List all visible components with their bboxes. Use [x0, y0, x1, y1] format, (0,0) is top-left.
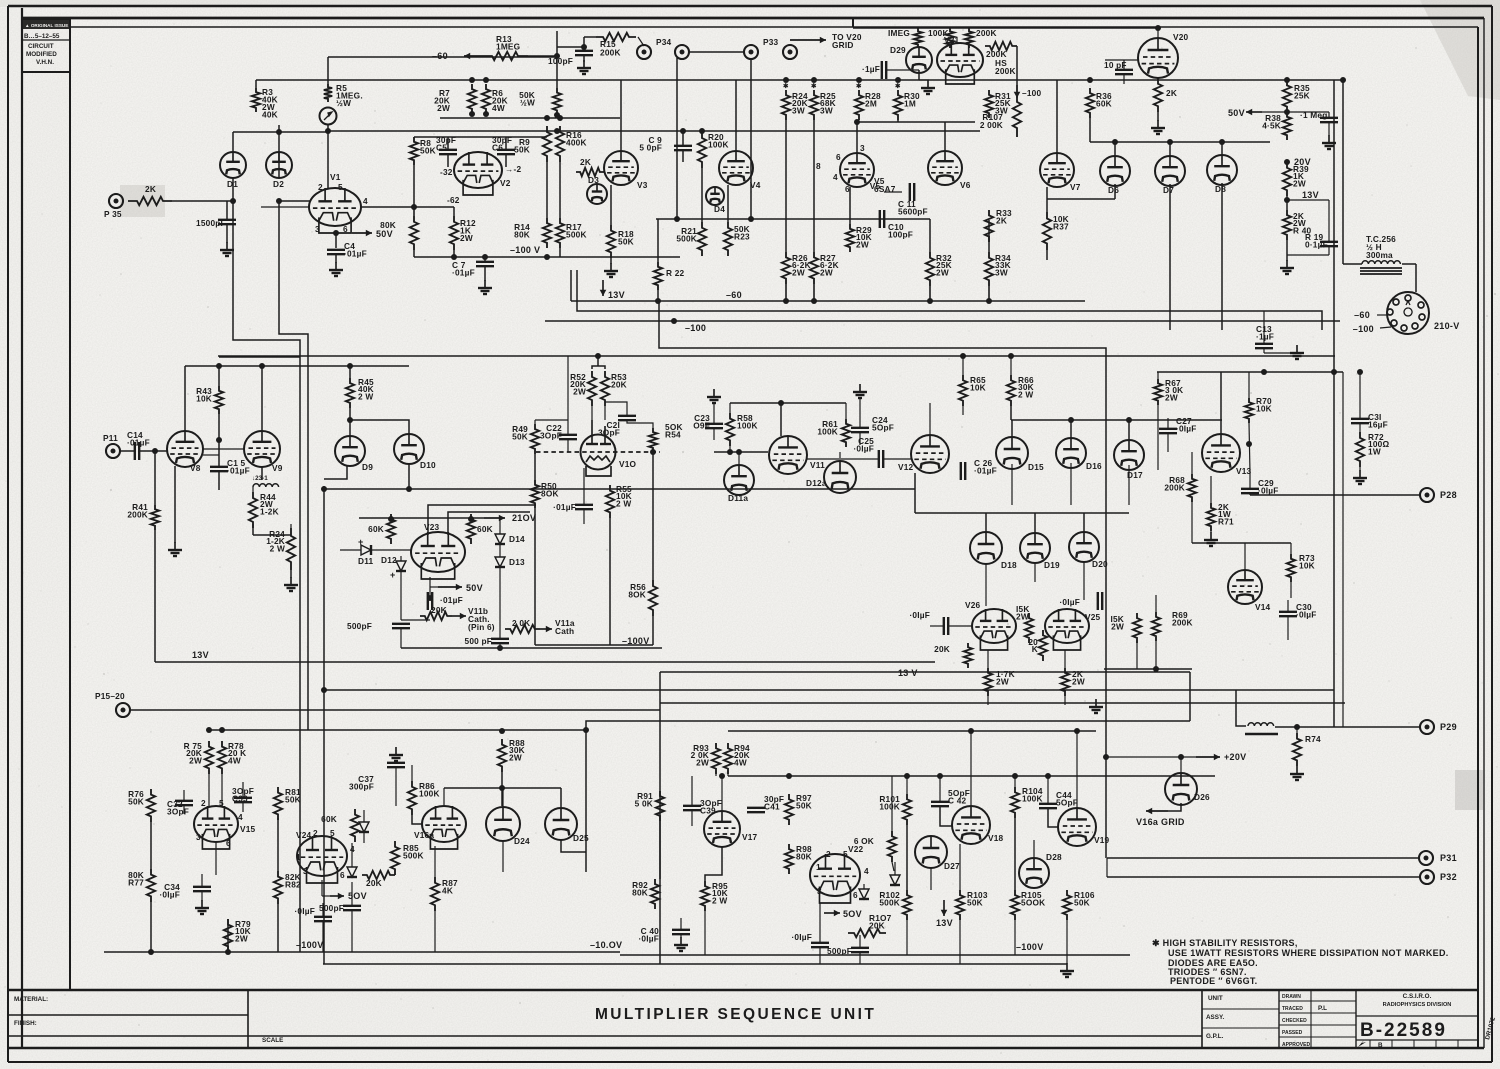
valve socket 210V — [1387, 292, 1429, 334]
diode D12 — [396, 561, 406, 571]
capacitor C7 — [476, 262, 494, 266]
wire R79 bottom — [227, 919, 229, 952]
svg-text:V1O: V1O — [619, 459, 637, 469]
wire D2 top to node — [278, 125, 280, 178]
wire — [894, 862, 896, 875]
resistor R87 — [431, 877, 439, 911]
wire C32 top — [183, 790, 185, 801]
diode tube D20 — [1069, 532, 1099, 562]
svg-text:R74: R74 — [1305, 734, 1321, 744]
wire -100 bus — [545, 320, 1340, 322]
wire R36 bottom — [1089, 118, 1091, 142]
svg-text:60K: 60K — [477, 524, 493, 534]
ground D29 — [921, 80, 935, 94]
connector P11 — [106, 444, 120, 458]
resistor 60K (V24) — [351, 809, 359, 842]
wire D8 down — [1221, 183, 1223, 330]
inductor core bar — [1245, 733, 1278, 735]
wire R49 top lead — [534, 420, 536, 424]
wire V4 cath down — [727, 185, 729, 222]
svg-text:V11aCath: V11aCath — [555, 618, 575, 636]
wire D12a top — [839, 452, 841, 458]
wire P28 line — [1250, 494, 1421, 496]
wire bus y964 — [323, 963, 1067, 965]
wire R15 left — [584, 36, 596, 38]
wire V14 plate up — [1244, 543, 1246, 570]
wire vertical x308 — [307, 366, 309, 730]
wire — [429, 587, 431, 598]
wire V8 plate up — [184, 366, 186, 431]
wire — [819, 947, 821, 964]
resistor 60K (V23 left) — [387, 514, 395, 544]
wire V8 k — [203, 454, 219, 456]
wire top grid bus — [853, 27, 1158, 29]
resistor 200K horizontal (V21) — [985, 42, 1017, 50]
svg-text:80K: 80K — [380, 220, 396, 230]
ground C24 — [853, 384, 867, 398]
svg-text:R6510K: R6510K — [970, 375, 986, 393]
svg-text:2K: 2K — [1166, 88, 1177, 98]
svg-text:8: 8 — [816, 161, 821, 171]
wire D14 top — [499, 519, 501, 534]
resistor R50 — [531, 480, 539, 508]
wire cap bot — [1328, 122, 1330, 136]
diode tube D3 — [587, 184, 607, 204]
capacitor C37 — [387, 763, 405, 767]
wire R102 bottom — [906, 920, 908, 955]
svg-text:V26: V26 — [965, 600, 981, 610]
wire C32 bottom — [183, 805, 185, 814]
wire P15-20 line — [129, 709, 660, 711]
svg-text:DRAWN: DRAWN — [1282, 994, 1301, 1000]
svg-text:R4950K: R4950K — [512, 424, 528, 442]
wire — [499, 643, 501, 648]
wire D20 top — [1083, 513, 1085, 532]
svg-text:V4: V4 — [750, 180, 761, 190]
resistor R92 — [651, 879, 659, 909]
svg-text:D28: D28 — [1046, 852, 1062, 862]
title block lower row line — [8, 1035, 1202, 1037]
wire diode bot — [363, 832, 365, 843]
wire R86 to V16a grid — [412, 815, 422, 824]
svg-text:▲ ORIGINAL ISSUE: ▲ ORIGINAL ISSUE — [25, 23, 68, 28]
svg-text:–100: –100 — [685, 323, 706, 333]
wire V23 plate2 — [448, 512, 530, 535]
wire bus y672 — [660, 671, 1190, 673]
svg-text:G.P.L.: G.P.L. — [1206, 1033, 1224, 1040]
wire R13 to node — [528, 55, 557, 57]
wire cap top — [1328, 112, 1330, 118]
capacitor C31 — [1351, 419, 1369, 423]
svg-text:R9510K2 W: R9510K2 W — [712, 881, 728, 905]
dual triode V15 — [194, 806, 238, 849]
capacitor 0.1uF (D29) — [882, 61, 886, 79]
resistor R81 — [274, 787, 282, 820]
svg-text:B-22589: B-22589 — [1360, 1020, 1447, 1041]
svg-text:200K: 200K — [976, 28, 997, 38]
svg-text:V17: V17 — [742, 832, 758, 842]
resistor 60K (V22) — [888, 831, 896, 862]
wire — [583, 468, 585, 505]
svg-text:✱: ✱ — [783, 83, 788, 90]
wire R49/C22 tie — [535, 419, 568, 421]
resistor R24 — [782, 90, 790, 120]
svg-text:R5220K2W: R5220K2W — [570, 372, 586, 396]
wire D18 bottom — [985, 563, 987, 606]
wire vertical x1343 lower — [1342, 372, 1344, 727]
wire C5 bot — [447, 154, 449, 167]
svg-text:C.S.I.R.O.: C.S.I.R.O. — [1403, 993, 1432, 1000]
wire R44 join — [252, 487, 254, 492]
wire R34 bot — [988, 286, 990, 301]
svg-text:R384·5K: R384·5K — [1262, 113, 1281, 131]
ground V8 — [168, 542, 182, 556]
svg-text:↓23-1: ↓23-1 — [252, 475, 268, 482]
resistor R107 20K (V22) — [848, 929, 886, 937]
svg-text:V16a: V16a — [414, 830, 434, 840]
wire R33-R34 — [988, 220, 990, 252]
resistor R67 — [1154, 379, 1162, 405]
wire P31/P32 join — [1106, 858, 1108, 877]
wire 2K bottom — [1064, 696, 1066, 705]
wire C29 top — [1249, 473, 1251, 489]
wire R65 top — [962, 356, 964, 375]
title block divider after finish — [247, 990, 249, 1048]
svg-text:–60: –60 — [432, 51, 448, 61]
wire D15/D16 top bus — [1011, 419, 1222, 421]
svg-text:4: 4 — [238, 812, 243, 822]
wire R53 bot — [604, 406, 606, 420]
diode D11 — [361, 545, 371, 555]
wire C40 top — [680, 918, 682, 930]
wire R22 top — [657, 219, 659, 262]
svg-text:2: 2 — [201, 798, 206, 808]
wire R95 down — [704, 911, 706, 955]
svg-text:D10: D10 — [420, 460, 436, 470]
wire C24 top — [859, 398, 861, 428]
ground C34 — [195, 900, 209, 914]
capacitor C25 — [879, 450, 883, 468]
wire R27 join — [813, 284, 815, 301]
wire R52 bot — [591, 406, 593, 420]
resistor R14 — [543, 218, 551, 248]
resistor R30 — [894, 90, 902, 120]
resistor R18 — [607, 225, 615, 258]
wire R66 bottom — [1010, 406, 1012, 420]
wire C4 top — [335, 233, 337, 248]
resistor R17 — [556, 218, 564, 248]
wire D11a top — [738, 452, 740, 466]
wire — [322, 921, 324, 952]
wire V3 cathode down — [610, 185, 612, 225]
resistor 2K 2W — [1061, 668, 1069, 696]
title block signature column — [1279, 990, 1356, 1048]
triode V6 — [928, 151, 962, 185]
svg-text:P31: P31 — [1440, 853, 1457, 863]
svg-text:R 22: R 22 — [666, 268, 685, 278]
svg-text:✱: ✱ — [895, 83, 900, 90]
wire V17 plate up — [721, 776, 723, 811]
wire R24-R26 — [785, 120, 787, 252]
svg-text:D8: D8 — [1215, 184, 1226, 194]
resistor R95 — [701, 881, 709, 911]
resistor R77 — [147, 869, 155, 902]
wire to 500pF — [401, 619, 430, 621]
wire -60 to socket — [1377, 314, 1388, 316]
wire C4 bottom — [335, 254, 337, 263]
wire R104-R105 — [1014, 818, 1016, 890]
svg-text:D13: D13 — [509, 557, 525, 567]
wire — [430, 586, 438, 588]
svg-text:100pF: 100pF — [548, 56, 573, 66]
wire R82 down — [277, 904, 279, 952]
frame border right — [1477, 27, 1479, 1048]
wire 100pF top — [583, 47, 585, 51]
ground C4 — [329, 262, 343, 276]
svg-text:V6: V6 — [960, 180, 971, 190]
wire D1 bottom lead — [232, 178, 234, 201]
svg-text:1: 1 — [296, 852, 301, 862]
diode tube D11a — [724, 465, 754, 495]
resistor 20K to V11b — [420, 612, 452, 620]
wire V25 bottom — [1064, 650, 1066, 668]
arrow -100 (R107) — [1014, 85, 1021, 98]
wire — [859, 952, 861, 964]
wire 13V node — [1287, 199, 1329, 201]
wire R73 top — [1290, 543, 1292, 554]
resistor 2K (V20) — [1154, 78, 1162, 112]
wire R13 node to R5 — [328, 56, 557, 58]
diode tube D24 — [486, 807, 520, 841]
ground 2K V20 — [1151, 120, 1165, 134]
svg-text:R3525K: R3525K — [1294, 83, 1310, 101]
svg-text:10KR37: 10KR37 — [1053, 214, 1069, 232]
resistor 1MEG (top) — [914, 28, 922, 48]
capacitor C29 — [1241, 489, 1259, 493]
wire V3 plate up — [620, 80, 622, 151]
svg-text:P 35: P 35 — [104, 209, 122, 219]
title block top line — [8, 989, 1478, 992]
svg-text:R9750K: R9750K — [796, 793, 812, 811]
connector P29 — [1420, 720, 1434, 734]
svg-text:UNIT: UNIT — [1208, 995, 1223, 1002]
resistor R3 — [252, 88, 260, 112]
svg-text:R104100K: R104100K — [1022, 786, 1043, 804]
resistor R88 — [498, 739, 506, 772]
svg-text:V8: V8 — [190, 463, 201, 473]
diode tube D15 — [996, 437, 1028, 469]
wire V12 plate up — [929, 403, 931, 435]
resistor R13 — [482, 52, 528, 60]
resistor R5 — [324, 84, 332, 102]
svg-text:V15: V15 — [240, 824, 256, 834]
svg-text:–100: –100 — [1022, 88, 1041, 98]
svg-text:50K½W: 50K½W — [519, 90, 535, 108]
capacitor 0.1Meg bypass — [1320, 118, 1338, 122]
arrow V11b cath — [452, 613, 466, 620]
svg-text:D24: D24 — [514, 836, 530, 846]
resistor 60K (V23 right) — [467, 514, 475, 544]
svg-text:2K: 2K — [145, 184, 156, 194]
wire R43 top — [218, 366, 220, 386]
wire R9-R14 — [546, 162, 548, 218]
resistor R37 — [1043, 212, 1051, 250]
wire V23 cath — [429, 577, 431, 587]
svg-text:13V: 13V — [192, 650, 209, 660]
svg-text:R6630K2 W: R6630K2 W — [1018, 375, 1034, 399]
svg-text:R101100K: R101100K — [879, 794, 900, 812]
resistor 2K (V3 grid) — [576, 168, 604, 176]
svg-text:·0IµF: ·0IµF — [294, 906, 315, 916]
wire 100pF bottom — [583, 55, 585, 62]
svg-text:R1480K: R1480K — [514, 222, 530, 240]
svg-text:D11: D11 — [358, 556, 374, 566]
neon indicator (R5) — [320, 108, 337, 125]
wire D19 bottom — [1034, 562, 1036, 582]
svg-text:V24: V24 — [296, 830, 312, 840]
resistor R61 — [842, 419, 850, 447]
title block unit column — [1202, 990, 1279, 1048]
ground 1500pF — [220, 242, 234, 256]
wire R43 bottom — [218, 414, 220, 440]
wire 80K top — [413, 207, 415, 216]
wire — [351, 910, 353, 952]
svg-text:6: 6 — [853, 890, 858, 900]
wire V11 to C25 — [807, 458, 879, 460]
resistor R78 — [218, 741, 226, 774]
wire V13 cath down — [1210, 476, 1212, 503]
wire vertical pair x1334 — [1333, 80, 1335, 727]
wire D8 top — [1221, 142, 1223, 155]
diode (V22 right) — [890, 875, 900, 885]
svg-text:D3: D3 — [588, 175, 599, 185]
wire 13V bus — [155, 661, 935, 663]
frame inner top line — [70, 26, 1478, 28]
resistor R65 — [959, 375, 967, 406]
wire V7 plate up — [1056, 80, 1058, 153]
svg-text:R9280K: R9280K — [632, 880, 648, 898]
wire R104 top — [1014, 776, 1016, 787]
svg-text:4: 4 — [363, 196, 368, 206]
wire R54-R56 — [652, 452, 654, 580]
wire R76-R77 — [150, 822, 152, 869]
wire bus y118 — [440, 117, 620, 119]
capacitor C26 — [961, 462, 965, 480]
wire D29 bottom — [918, 70, 920, 80]
resistor 1.7K — [984, 668, 992, 696]
wire V16a cath — [434, 846, 436, 877]
resistor R33 — [985, 210, 993, 242]
wire long bus y356 — [218, 355, 1335, 357]
svg-text:20K: 20K — [431, 605, 447, 615]
arrow 50V (V1 cathode) — [352, 230, 372, 237]
wire bus y131 — [330, 130, 980, 132]
wire R15 drop — [583, 37, 585, 47]
resistor 20K to V11a — [505, 625, 540, 633]
resistor 2K (P35) — [128, 197, 172, 205]
resistor R98 — [785, 844, 793, 874]
svg-text:D7: D7 — [1163, 185, 1174, 195]
wire D19 top — [1034, 513, 1036, 533]
dual triode V16a — [422, 806, 466, 849]
svg-text:D18: D18 — [1001, 560, 1017, 570]
wire C21 top — [605, 402, 627, 416]
svg-text:B: B — [1378, 1042, 1383, 1049]
wire R32 top — [929, 219, 931, 252]
wire C14 to V8 — [139, 450, 167, 452]
wire R101-R102 — [906, 825, 908, 890]
resistor R75 — [205, 741, 213, 774]
svg-text:D4: D4 — [714, 204, 725, 214]
svg-text:5OV: 5OV — [348, 891, 367, 901]
arrow V16a GRID — [1146, 808, 1168, 815]
capacitor .01uF (V24) — [314, 917, 332, 921]
wire R105 bottom — [1014, 920, 1016, 955]
wire R15 to P34 — [638, 37, 644, 46]
dual triode V21 — [937, 43, 983, 84]
wire C9 bot — [682, 150, 684, 162]
wire D6 bottom — [1114, 184, 1116, 199]
capacitor 0.1uF (R40) — [1320, 242, 1338, 246]
wire R41 top — [154, 451, 156, 505]
triode V19 — [1058, 808, 1096, 846]
svg-text:6: 6 — [836, 152, 841, 162]
wire bus y543 — [1192, 542, 1291, 544]
connector P33 left — [744, 45, 758, 59]
wire — [863, 884, 865, 889]
wire R65 bottom — [962, 406, 964, 415]
svg-text:SCALE: SCALE — [262, 1037, 283, 1044]
triode V18 — [952, 806, 990, 844]
wire C13 top — [1263, 311, 1265, 344]
svg-text:P15–20: P15–20 — [95, 691, 125, 701]
resistor R6 — [482, 84, 490, 114]
svg-text:13V: 13V — [608, 290, 625, 300]
resistor R41 — [151, 505, 159, 530]
resistor R86 — [408, 781, 416, 815]
svg-text:C13·1µF: C13·1µF — [1256, 324, 1274, 342]
dual triode V23 — [411, 532, 465, 579]
wire box (sequence group) outline — [586, 721, 1190, 872]
svg-text:V2: V2 — [500, 178, 511, 188]
resistor R106 — [1063, 890, 1071, 920]
svg-text:APPROVED: APPROVED — [1282, 1042, 1310, 1048]
svg-text:1: 1 — [816, 862, 821, 872]
triode V12 — [911, 435, 949, 473]
wire C7 bot — [484, 266, 486, 281]
connector P28 — [1420, 488, 1434, 502]
wire R45 top — [349, 366, 351, 378]
connector P32 — [1420, 870, 1434, 884]
wire 210V line — [359, 517, 484, 519]
svg-text:D12a: D12a — [806, 478, 827, 488]
wire R32 bot — [929, 286, 931, 301]
svg-text:5: 5 — [330, 828, 335, 838]
resistor R73 — [1287, 554, 1295, 582]
dual triode V25 — [1045, 609, 1089, 650]
resistor R53 — [601, 371, 609, 406]
svg-text:5: 5 — [843, 849, 848, 859]
svg-text:6: 6 — [340, 870, 345, 880]
svg-text:P28: P28 — [1440, 490, 1457, 500]
arrow -60 (R13) — [464, 53, 482, 60]
capacitor C32 — [175, 801, 193, 805]
diode D14 — [495, 534, 505, 544]
svg-text:20K: 20K — [934, 644, 950, 654]
svg-text:✱: ✱ — [811, 83, 816, 90]
wire vertical x324 — [323, 486, 325, 964]
capacitor C41 — [747, 808, 765, 812]
